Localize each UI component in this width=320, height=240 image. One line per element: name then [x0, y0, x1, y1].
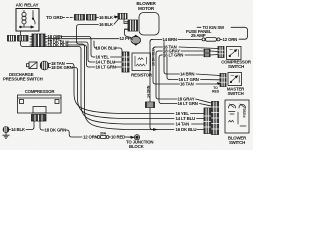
svg-text:16 DK BLU: 16 DK BLU: [152, 48, 156, 66]
wire 12 PPL to grommet: [45, 36, 133, 41]
wire 12 ORN to fuse: [83, 135, 98, 140]
inline connector on orn wire: [146, 102, 155, 108]
relay bottom contact line: [20, 24, 34, 28]
wire 14 ORN vertical with label: [146, 39, 156, 130]
wire 16 LT GRN to compressor switch: [159, 53, 203, 58]
connector B: [87, 15, 97, 21]
dashed wire to ground: [63, 17, 75, 19]
wire 14 BLK: [9, 121, 34, 132]
wire 16 LT GRN to blower switch: [159, 58, 211, 107]
wire 18 DK GRN: [49, 65, 78, 70]
svg-text:A/C RELAY: A/C RELAY: [16, 3, 39, 8]
svg-text:18 DK BLU: 18 DK BLU: [96, 46, 117, 51]
compressor box: [18, 95, 62, 113]
motor feed connector box: [118, 14, 127, 20]
svg-text:18 DK GRN: 18 DK GRN: [45, 128, 67, 133]
motor connector: [125, 20, 138, 31]
wire 14 BRN to fuse: [150, 37, 202, 42]
compressor switch box: [227, 47, 242, 60]
svg-text:16 LT GRN: 16 LT GRN: [96, 65, 116, 70]
wire to ignition switch: [197, 25, 248, 39]
A/C relay box: [16, 9, 39, 32]
svg-text:16 DK BLU: 16 DK BLU: [176, 127, 197, 132]
svg-text:12 ORN: 12 ORN: [83, 135, 98, 140]
wire 18 TAN: [49, 61, 74, 66]
svg-text:16 TAN: 16 TAN: [180, 82, 194, 87]
svg-text:TO GRD: TO GRD: [46, 15, 64, 20]
wire 12 ORN from fuse: [220, 37, 243, 42]
fuse 25A: [202, 38, 220, 42]
inline connector on gray wire: [204, 49, 218, 52]
wire 18 GRAY to blower switch: [156, 54, 211, 103]
compressor switch pins: [218, 47, 224, 58]
svg-text:RES: RES: [212, 89, 220, 93]
relay contact arm: [32, 11, 35, 25]
svg-text:16 BLK: 16 BLK: [99, 15, 114, 20]
discharge pressure switch connector: [40, 61, 49, 70]
wire 10 RED: [109, 135, 134, 140]
master switch pins: [220, 74, 226, 87]
wire 16 BLK lower from relay: [77, 19, 119, 47]
svg-text:16 LT GRN: 16 LT GRN: [178, 101, 198, 106]
wire 18 DK GRN from compressor: [40, 121, 82, 137]
junction block terminal: [134, 135, 139, 140]
svg-text:SWITCH: SWITCH: [228, 64, 244, 69]
wire 16 YEL sweep to blower switch: [74, 66, 204, 116]
wire 16 LT GRN to master switch: [167, 57, 220, 82]
wire 14 TAN sweep to blower switch: [81, 49, 204, 127]
wire 16 DK BLU sweep to blower switch: [85, 47, 205, 133]
blower motor body: [139, 13, 159, 36]
fuse 30A: [97, 135, 109, 138]
svg-text:SWITCH: SWITCH: [229, 140, 245, 145]
wire connector to motor pin: [124, 19, 128, 24]
svg-text:BLOCK: BLOCK: [129, 144, 145, 149]
resistor connector block: [122, 52, 129, 72]
svg-text:30A: 30A: [100, 131, 107, 135]
wire 16 LT GRN resistor row: [87, 48, 123, 70]
wire 14 LT BLU sweep to blower switch: [78, 70, 205, 121]
svg-text:MOTOR: MOTOR: [138, 6, 155, 11]
svg-text:16 BLK: 16 BLK: [99, 22, 114, 27]
blower switch connector block 1: [204, 108, 211, 134]
relay harness connector block: [30, 34, 45, 47]
wire 14 LT BLU resistor row: [88, 45, 122, 65]
wire relay box bottom to connector: [20, 31, 22, 35]
connector A: [75, 15, 85, 21]
resistor box: [132, 53, 151, 71]
svg-text:COMPRESSOR: COMPRESSOR: [25, 89, 56, 94]
svg-text:18 DK GRN: 18 DK GRN: [51, 65, 73, 70]
relay coil: [22, 11, 26, 25]
svg-text:25 AMP: 25 AMP: [191, 33, 206, 38]
wire 18 DK BLU: [45, 40, 88, 45]
wire 16 DK BLU: [45, 43, 87, 48]
wire 18 DK BLU resistor top row: [94, 41, 122, 53]
svg-text:14 BRN: 14 BRN: [180, 72, 194, 77]
compressor connector: [32, 115, 47, 122]
svg-text:RESISTOR: RESISTOR: [131, 73, 153, 78]
wire 18 GRAY to compressor switch: [156, 49, 203, 54]
svg-text:16 LT GRN: 16 LT GRN: [163, 53, 183, 58]
svg-text:14 BRN: 14 BRN: [163, 37, 177, 42]
svg-text:12 ORN: 12 ORN: [223, 37, 238, 42]
wire 16 BLK upper: [96, 15, 118, 20]
ground circle: [3, 127, 9, 133]
svg-text:14 ORN: 14 ORN: [146, 85, 150, 98]
inline connector on lt grn wire: [204, 54, 218, 57]
svg-text:SWITCH: SWITCH: [227, 91, 243, 96]
svg-text:14 TAN: 14 TAN: [176, 122, 190, 127]
svg-text:14 BLK: 14 BLK: [11, 127, 26, 132]
wire 18 ORN: [45, 34, 91, 39]
svg-text:14 LT BLU: 14 LT BLU: [176, 116, 196, 121]
master switch box: [228, 73, 242, 86]
connector (left bulkhead half): [8, 36, 16, 42]
wire from connector down and right: [21, 41, 82, 49]
svg-text:FUSE: FUSE: [243, 108, 247, 118]
svg-text:TO IGN SW: TO IGN SW: [203, 25, 226, 30]
firewall grommet: [131, 35, 141, 45]
wire motor lower pin to grommet: [125, 29, 132, 37]
blower switch connector block 2: [212, 102, 219, 135]
connector below relay: [18, 36, 29, 42]
wire 16 TAN to master switch: [153, 47, 221, 87]
wire 14 BRN to master switch: [164, 42, 220, 77]
wire 16 YEL resistor row: [91, 39, 122, 60]
svg-text:PRESSURE SWITCH: PRESSURE SWITCH: [3, 77, 43, 82]
wire 16 TAN to compressor switch: [153, 45, 218, 50]
ground symbol: [3, 132, 9, 138]
blower switch box: [225, 100, 249, 133]
svg-text:10 RED: 10 RED: [111, 135, 125, 140]
svg-text:16 DK BLU: 16 DK BLU: [48, 43, 69, 48]
discharge pressure switch body: [27, 62, 38, 69]
